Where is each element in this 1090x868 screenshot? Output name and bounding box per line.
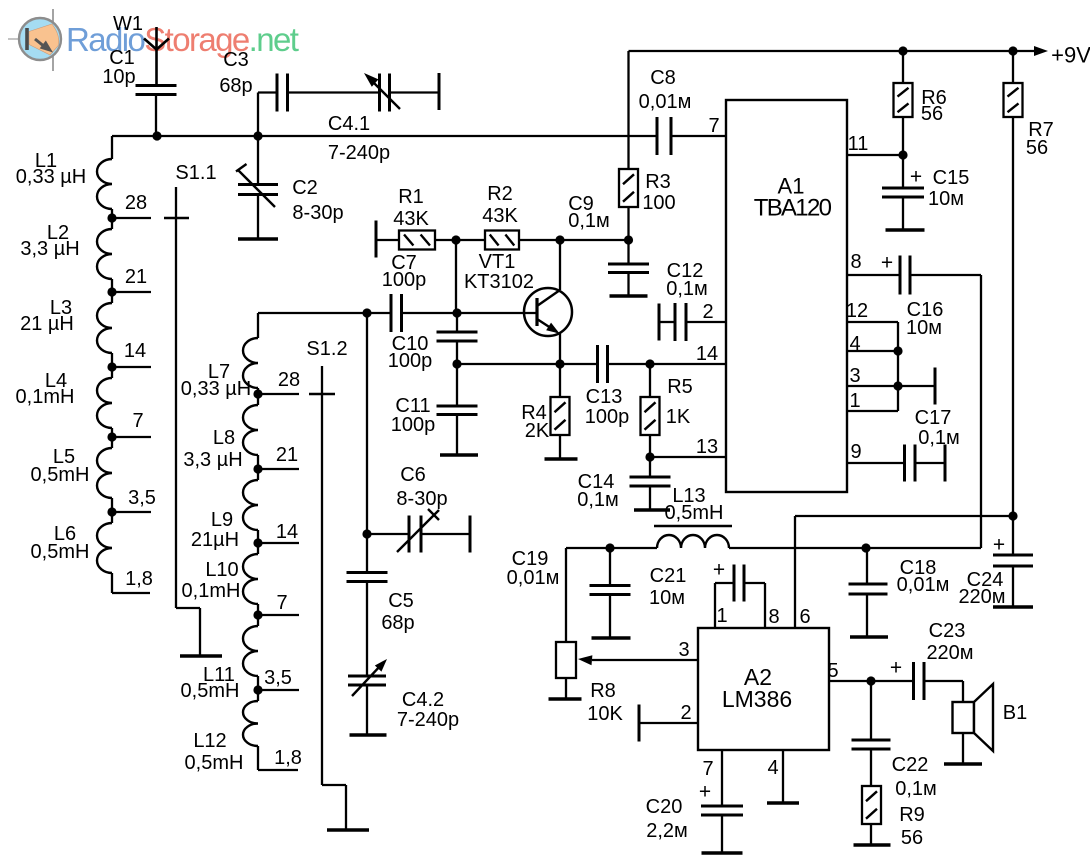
svg-text:C2: C2 [292,177,318,199]
svg-text:3,5: 3,5 [128,487,156,509]
wire +9V feed [627,51,629,169]
pin 1 label A2 [716,605,727,627]
resistor R5 [641,364,660,457]
svg-text:1: 1 [849,390,860,412]
label C7 [382,252,427,291]
capacitor C19 [590,548,631,638]
label R7 [1026,119,1054,159]
label C4.2 [397,689,459,731]
label tap 28 left [125,192,147,214]
wire pin 5 [829,676,914,685]
svg-text:C6: C6 [400,464,426,486]
pin 7 label [708,115,719,137]
resistor R1 [399,231,435,250]
svg-text:28: 28 [278,369,300,391]
label L3 [20,297,74,335]
wire pin 13 [650,456,726,458]
node base wire left [362,308,371,317]
pin 2 label [702,301,713,323]
label tap 1,8 right [274,747,302,769]
label C17 [915,407,960,449]
node R1-R2 [435,235,485,313]
label R2 [482,183,518,227]
inductor L8 [243,394,258,469]
tap 7 left [107,432,151,441]
label L6 [31,523,90,563]
svg-text:+: + [890,656,902,679]
svg-text:10K: 10K [587,703,623,725]
wire C6 left [367,533,409,535]
svg-text:0,1м: 0,1м [666,278,708,300]
label tap 3,5 right [264,667,292,689]
wire speaker to ground [962,733,964,764]
label C4.1 [328,113,390,164]
svg-text:21µH: 21µH [191,529,239,551]
svg-text:1,8: 1,8 [125,568,153,590]
node B junction [253,131,262,140]
node C6 [362,529,371,538]
svg-text:+: + [993,533,1005,556]
capacitor C22 [852,681,891,749]
svg-text:C20: C20 [646,796,683,818]
svg-text:C23: C23 [929,620,966,642]
svg-text:TBA120: TBA120 [754,194,832,221]
svg-text:43K: 43K [393,208,429,230]
pin 3 label [849,365,860,387]
svg-text:56: 56 [1026,137,1048,159]
wire base [367,312,537,314]
ground under C9 [610,294,648,297]
wire pin 12 [847,321,898,323]
ground under S1.1 [180,654,222,657]
svg-text:220м: 220м [926,642,973,664]
svg-text:21: 21 [276,444,298,466]
label tap 28 right [278,369,300,391]
label tap 7 right [276,592,287,614]
label tap 21 left [125,266,147,288]
svg-text:8: 8 [850,251,861,273]
pin 11 label [848,133,869,155]
label R3 [642,171,675,214]
wire C23 to speaker [924,681,963,702]
logo crosshair lines [8,9,53,71]
label L10 [182,559,241,602]
svg-text:L8: L8 [213,427,235,449]
wire +9V rail [629,46,1037,55]
svg-text:7-240p: 7-240p [397,709,459,731]
svg-text:220м: 220м [958,586,1005,608]
inductor L9 [243,469,258,543]
+9V arrow [1034,46,1048,56]
tap 28 right [253,389,299,398]
wire C6 to bar [421,533,470,535]
tap 14 left [107,362,151,371]
tap 21 right [253,464,299,473]
svg-text:8: 8 [768,606,779,628]
svg-text:2: 2 [680,702,691,724]
svg-text:R9: R9 [899,804,925,826]
label S1.2 [306,338,347,360]
svg-text:12: 12 [846,300,868,322]
resistor R2 [485,231,519,250]
label L8 [183,427,242,471]
wire base node to L7 [258,313,367,338]
svg-text:2K: 2K [525,420,550,442]
pin 1 label [849,390,860,412]
svg-text:C22: C22 [892,754,929,776]
capacitor C10 [437,332,478,341]
label C9 [568,193,610,232]
label A2 [722,664,792,712]
inductor L7 [243,338,258,394]
label tap 14 right [276,521,298,543]
svg-text:0,1м: 0,1м [918,427,960,449]
inductor L11 [243,615,258,690]
label VT1 [464,251,534,293]
ground under C2 [238,237,278,240]
label tap 21 right [276,444,298,466]
wire collector [559,240,561,290]
svg-text:21: 21 [125,266,147,288]
svg-text:RadioStorage.net: RadioStorage.net [66,21,299,58]
terminal bar left of C12 [659,304,675,341]
resistor R6 [894,51,913,155]
capacitor C2 trimmer [236,164,278,207]
logo base bar [25,28,29,50]
svg-text:C21: C21 [650,565,687,587]
label R4 [521,402,550,442]
label W1 [113,13,143,35]
pin 3 label A2 [678,639,689,661]
label C14 [577,471,619,511]
ground under S1.2 [327,828,369,831]
svg-text:100p: 100p [388,350,433,372]
capacitor C13 [598,345,608,383]
ground under R8 [549,697,582,700]
inductor L4 [97,367,112,437]
capacitor C11 [437,406,478,415]
label C18 [897,557,950,596]
tap 7 right [253,610,299,619]
wire C16 to corner [910,275,981,548]
svg-text:0,01м: 0,01м [897,574,950,596]
terminal bar right of C4.1 [438,73,441,110]
svg-text:C4.1: C4.1 [328,113,370,135]
ground under C19 [592,636,631,639]
node A junction [152,131,161,140]
label A1 [754,174,832,222]
svg-text:0,1м: 0,1м [895,778,937,800]
svg-text:68p: 68p [219,75,252,97]
capacitor C7 [391,294,402,332]
wire pin 4 [847,350,898,352]
label C12 [666,260,708,300]
capacitor C15 [882,155,924,230]
wire C3 riser [258,93,277,137]
potentiometer R8 [556,642,576,699]
label C22 [892,754,937,800]
wire R7 down [1012,117,1014,516]
wire R2 to collector node [519,239,560,241]
capacitor C8 [657,117,671,155]
svg-text:R3: R3 [645,171,671,193]
inductor L2 [97,218,112,292]
svg-text:VT1: VT1 [479,251,516,273]
label L2 [20,222,79,260]
svg-text:0,1mH: 0,1mH [16,386,75,408]
wire pin 3 A2 with wiper arrow [578,655,698,665]
ground under R4 [545,457,578,460]
svg-text:7-240p: 7-240p [328,142,390,164]
svg-text:56: 56 [921,103,943,125]
terminal bar pin 3 [934,368,937,405]
svg-text:1,8: 1,8 [274,747,302,769]
ground under C18 [850,635,888,638]
svg-text:3: 3 [849,365,860,387]
label C6 [396,464,447,510]
label +9V [1051,43,1090,68]
node base junction [452,308,461,317]
wire riser to C6 node [366,313,368,534]
svg-text:B1: B1 [1003,702,1027,724]
svg-text:10м: 10м [906,317,942,339]
label C13 [585,386,630,428]
svg-text:0,5mH: 0,5mH [665,502,724,524]
svg-text:+: + [910,165,922,188]
pin 2 label A2 [680,702,691,724]
svg-text:KT3102: KT3102 [464,271,534,293]
svg-text:C17: C17 [915,407,952,429]
svg-text:3,5: 3,5 [264,667,292,689]
terminal bar right of C17 [944,445,947,482]
label C15 [910,165,969,210]
label S1.1 [175,162,216,184]
pin 12 label [846,300,868,322]
svg-text:S1.2: S1.2 [306,338,347,360]
tap 28 left [107,213,151,222]
resistor R3 [619,169,638,207]
wire pin 4 A2 ground [782,750,784,803]
pin 14 label [696,343,718,365]
label C8 [639,67,692,113]
inductor L10 [243,543,258,615]
label tap 14 left [124,340,146,362]
svg-text:+: + [881,251,893,274]
label C16 [881,251,943,339]
wire pin 11 [847,150,908,159]
wire C2 to ground [257,195,259,240]
wire emitter [559,333,561,364]
svg-text:0,33 µH: 0,33 µH [181,378,251,400]
ground under B1 [944,762,982,765]
label L7 [181,361,251,400]
op-amp U1 A1 TBA120 [726,100,847,492]
wire main node [112,135,726,137]
logo orange wedge [29,24,59,55]
svg-text:0,5mH: 0,5mH [185,752,244,774]
svg-text:2,2м: 2,2м [646,820,688,842]
pin 7 label A2 [702,758,713,780]
label R5 [666,376,693,428]
label tap 1,8 left [125,568,153,590]
capacitor C24 [993,516,1033,607]
wire collector decoupling [560,239,629,241]
capacitor C12 [675,303,686,341]
label L4 [16,370,75,408]
label R9 [899,804,925,849]
svg-text:R1: R1 [398,186,424,208]
logo arrow [35,39,53,53]
svg-text:1: 1 [716,605,727,627]
svg-text:9: 9 [850,441,861,463]
svg-text:C8: C8 [650,67,676,89]
label L11 [181,664,240,702]
label C11 [391,395,436,436]
wire C4.2 to ground [366,685,368,735]
label L12 [185,730,244,774]
tap 3,5 right [253,685,299,694]
loudspeaker B1 [953,684,994,751]
svg-text:0,1м: 0,1м [577,489,619,511]
switch S1.1 [164,187,200,656]
antenna W1 [144,27,169,86]
svg-text:+9V: +9V [1051,43,1090,68]
capacitor C9 [608,240,649,296]
capacitor C1 [136,86,177,95]
ground under C20 [702,851,743,854]
inductor L3 [97,292,112,367]
label C23 [890,620,974,679]
svg-text:4: 4 [767,757,778,779]
label C3 [219,49,252,97]
ground under C14 [634,508,670,511]
inductor L13 [654,526,732,548]
svg-text:0,01м: 0,01м [639,91,692,113]
ground under R9 [854,843,891,846]
label C2 [292,177,343,224]
pin 4 label [849,333,860,355]
wire V+ to LM386 pin 6 [795,516,1013,628]
svg-text:C4.2: C4.2 [402,689,444,711]
label L5 [31,446,90,486]
svg-text:68p: 68p [381,612,414,634]
switch S1.2 [309,366,346,830]
terminal bar left of R1 [376,221,399,258]
capacitor C18 [849,548,888,637]
svg-text:8-30p: 8-30p [396,488,447,510]
svg-text:11: 11 [848,133,869,155]
tap 1,8 right [258,752,298,770]
svg-text:13: 13 [696,436,718,458]
svg-text:5: 5 [827,660,838,682]
node collector [555,235,564,244]
svg-text:L12: L12 [193,730,226,752]
capacitor C3 [277,74,288,112]
label tap 7 left [132,410,143,432]
terminal bar right of C6 [469,516,472,553]
wire pins 12-4-3-1 bus [893,322,902,411]
label C1 [102,47,135,88]
wire C3 to C4.1 [288,91,380,93]
svg-text:21 µH: 21 µH [20,313,74,335]
svg-text:1K: 1K [666,406,691,428]
tap 14 right [253,538,299,547]
wire C1 to node A [155,95,157,137]
node R7-C24 [1008,511,1017,520]
wire emitter line [457,359,726,368]
svg-text:0,01м: 0,01м [507,567,560,589]
label tap 3,5 left [128,487,156,509]
svg-text:0,1м: 0,1м [568,210,610,232]
svg-text:100p: 100p [391,414,436,436]
svg-text:C15: C15 [933,167,970,189]
capacitor C21 [715,565,765,629]
tap 21 left [107,287,151,296]
wire C12 to pin 2 [686,321,726,323]
capacitor C5 [347,534,388,582]
label C24 [958,533,1005,608]
svg-text:+: + [713,558,725,581]
label R6 [921,87,947,125]
svg-text:3: 3 [678,639,689,661]
wire pin 1 [847,410,898,412]
label C20 [646,780,711,842]
wire to R8 [565,548,567,642]
logo text RadioStorage.net [66,21,299,58]
label L9 [191,509,239,551]
terminal bar pin 2 A2 [639,705,698,742]
svg-text:14: 14 [276,521,298,543]
capacitor C23 [914,662,925,700]
capacitor C20 [701,750,743,853]
resistor R9 [862,749,881,845]
capacitor C14 [630,457,671,510]
svg-text:0,5mH: 0,5mH [181,680,240,702]
svg-text:3,3 µH: 3,3 µH [183,449,242,471]
svg-text:14: 14 [696,343,718,365]
svg-text:+: + [699,780,711,803]
ground under pin 4 A2 [767,801,799,804]
svg-text:L9: L9 [211,509,233,531]
label C19 [507,548,560,589]
svg-text:100p: 100p [382,269,427,291]
ground under C11 [440,453,478,456]
svg-text:28: 28 [125,192,147,214]
wire R3 to node [624,207,633,245]
label R1 [393,186,429,230]
wire C11 to ground [456,415,458,456]
svg-text:C5: C5 [388,590,414,612]
svg-text:43K: 43K [482,205,518,227]
pin 5 label A2 [827,660,838,682]
svg-text:10p: 10p [102,66,135,88]
label C5 [381,590,414,634]
svg-text:S1.1: S1.1 [175,162,216,184]
svg-text:6: 6 [799,606,810,628]
svg-text:L10: L10 [205,559,238,581]
label L1 [16,150,86,188]
inductor L6 [97,512,112,582]
wire pin 3 [847,385,935,387]
svg-text:0,5mH: 0,5mH [31,464,90,486]
wire node to L1 [111,136,113,159]
svg-text:100: 100 [642,192,675,214]
ground under C24 [993,605,1033,608]
transistor VT1 [524,288,572,336]
svg-text:7: 7 [132,410,143,432]
label L13 [665,485,724,524]
svg-text:10м: 10м [928,188,964,210]
